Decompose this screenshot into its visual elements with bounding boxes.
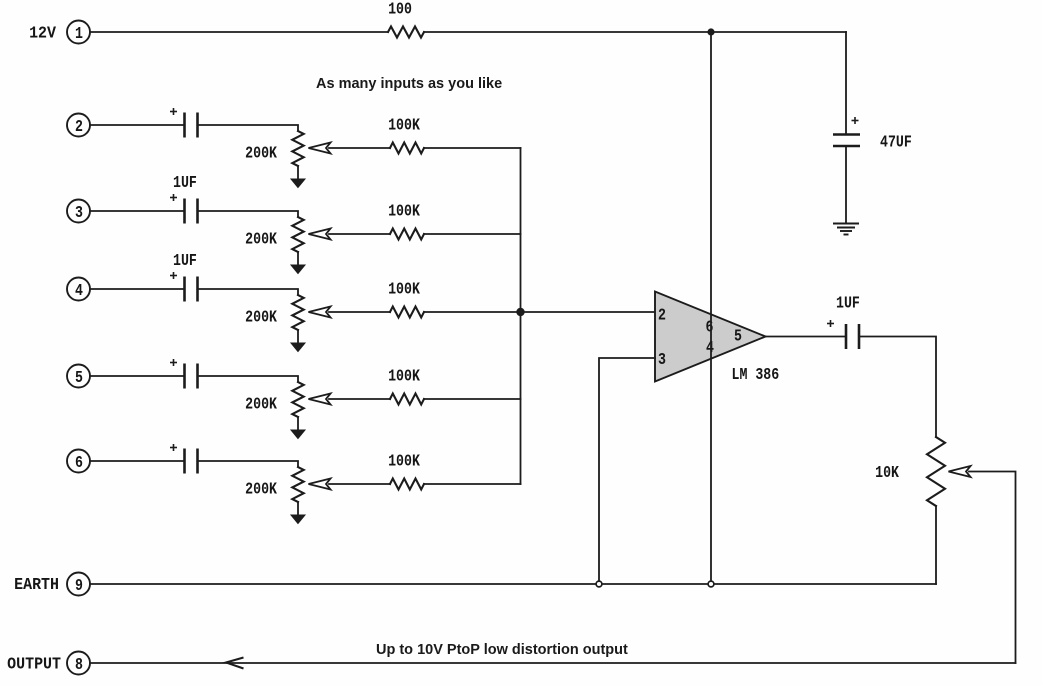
- svg-text:10K: 10K: [875, 463, 900, 483]
- potentiometer 200K input 2: [292, 131, 303, 166]
- wire 100K to summing bus input 2: [424, 147, 521, 149]
- wire input 6 to coupling cap: [90, 460, 183, 462]
- svg-text:6: 6: [706, 317, 714, 337]
- capacitor 1UF input 2 (electrolytic): [170, 108, 198, 138]
- wire input 4 to coupling cap: [90, 288, 183, 290]
- svg-text:1: 1: [75, 24, 83, 44]
- wire cap to pot input 4: [198, 289, 299, 294]
- arrow on output line: [226, 658, 244, 669]
- wire op-amp output to 1UF cap: [766, 336, 845, 338]
- resistor 100: [388, 27, 424, 38]
- node 5 terminal (input 5): [67, 365, 90, 388]
- arrow to ground (pot bottom) input 4: [291, 343, 305, 352]
- wire input 2 to coupling cap: [90, 124, 183, 126]
- wire cap to 10K pot: [859, 337, 936, 438]
- svg-text:Up to 10V PtoP low distortion: Up to 10V PtoP low distortion output: [376, 642, 628, 658]
- arrow to ground (pot bottom) input 5: [291, 430, 305, 439]
- wire pot bottom stem input 2: [297, 166, 299, 180]
- svg-text:100K: 100K: [388, 201, 421, 221]
- wire output line: [90, 662, 1016, 664]
- node 4 terminal (input 4): [67, 278, 90, 301]
- svg-text:100K: 100K: [388, 115, 421, 135]
- capacitor 1UF input 6 (electrolytic): [170, 444, 198, 474]
- svg-text:9: 9: [75, 576, 83, 596]
- svg-text:6: 6: [75, 453, 83, 473]
- svg-text:47UF: 47UF: [880, 132, 912, 152]
- node 1 terminal (12V input): [67, 21, 90, 44]
- wire wiper to 100K input 2: [329, 147, 390, 149]
- wire cap to pot input 2: [198, 125, 299, 130]
- wire pot bottom stem input 3: [297, 252, 299, 266]
- wire 12V rail right segment: [424, 31, 846, 33]
- wire earth line: [90, 583, 936, 585]
- wire input 5 to coupling cap: [90, 375, 183, 377]
- op-amp U1 LM386: [655, 292, 766, 382]
- svg-text:200K: 200K: [245, 229, 278, 249]
- arrow to ground (pot bottom) input 6: [291, 515, 305, 524]
- wire 100K to summing bus input 6: [424, 483, 521, 485]
- wire 12V rail left segment: [90, 31, 388, 33]
- capacitor 1UF input 3 (electrolytic): [170, 194, 198, 224]
- svg-text:1UF: 1UF: [173, 173, 197, 193]
- node 9 terminal (EARTH): [67, 573, 90, 596]
- wire 10K bottom to earth: [935, 506, 937, 584]
- svg-text:As many inputs as you like: As many inputs as you like: [316, 76, 502, 92]
- wire 100K to summing bus input 4: [424, 311, 521, 313]
- wire cap to pot input 3: [198, 211, 299, 216]
- summing bus vertical wire: [520, 148, 522, 484]
- svg-text:5: 5: [75, 368, 83, 388]
- resistor 100K input 3: [390, 229, 424, 240]
- wiper arrow 10K: [949, 466, 971, 477]
- svg-text:2: 2: [75, 117, 83, 137]
- junction dot 12V rail / pin6 line: [707, 28, 714, 35]
- wire wiper to 100K input 3: [329, 233, 390, 235]
- svg-text:8: 8: [75, 655, 83, 675]
- arrow to ground (pot bottom) input 3: [291, 265, 305, 274]
- wiper arrow input 4: [309, 307, 331, 318]
- capacitor 47UF (electrolytic, horizontal plates): [833, 117, 860, 146]
- svg-text:2: 2: [658, 305, 666, 325]
- svg-text:LM 386: LM 386: [732, 365, 780, 385]
- wire cap to pot input 5: [198, 376, 299, 381]
- svg-text:3: 3: [75, 203, 83, 223]
- junction ring pin4/earth: [708, 581, 714, 587]
- wire wiper to 100K input 4: [329, 311, 390, 313]
- svg-text:100K: 100K: [388, 366, 421, 386]
- wire 10K wiper to output drop: [969, 472, 1016, 664]
- svg-text:3: 3: [658, 350, 666, 370]
- svg-text:OUTPUT: OUTPUT: [7, 655, 61, 674]
- junction ring pin3/earth: [596, 581, 602, 587]
- resistor 100K input 4: [390, 307, 424, 318]
- wire pot bottom stem input 6: [297, 502, 299, 516]
- wire pin 3 to earth: [599, 358, 655, 584]
- svg-text:EARTH: EARTH: [14, 575, 59, 594]
- svg-text:1UF: 1UF: [836, 293, 860, 313]
- wiper arrow input 5: [309, 394, 331, 405]
- resistor 100K input 2: [390, 143, 424, 154]
- svg-text:100: 100: [388, 0, 412, 19]
- node 3 terminal (input 3): [67, 200, 90, 223]
- wire bus to pin 2: [521, 311, 656, 313]
- wiper arrow input 6: [309, 479, 331, 490]
- potentiometer 200K input 3: [292, 217, 303, 252]
- capacitor 1UF output (electrolytic): [827, 320, 859, 349]
- wire pot bottom stem input 5: [297, 417, 299, 431]
- wire 100K to summing bus input 3: [424, 233, 521, 235]
- svg-text:200K: 200K: [245, 394, 278, 414]
- potentiometer 200K input 5: [292, 382, 303, 417]
- junction dot bus to pin 2: [516, 308, 524, 316]
- svg-text:200K: 200K: [245, 479, 278, 499]
- potentiometer 10K: [927, 437, 945, 506]
- wire cap to pot input 6: [198, 461, 299, 466]
- arrow to ground (pot bottom) input 2: [291, 179, 305, 188]
- svg-text:100K: 100K: [388, 451, 421, 471]
- svg-text:12V: 12V: [29, 24, 56, 43]
- wire from rail down to 47UF cap: [845, 32, 847, 134]
- resistor 100K input 6: [390, 479, 424, 490]
- svg-text:1UF: 1UF: [173, 251, 197, 271]
- resistor 100K input 5: [390, 394, 424, 405]
- potentiometer 200K input 4: [292, 295, 303, 330]
- svg-text:5: 5: [734, 326, 742, 346]
- capacitor 1UF input 4 (electrolytic): [170, 272, 198, 302]
- node 8 terminal (OUTPUT): [67, 652, 90, 675]
- wiper arrow input 2: [309, 143, 331, 154]
- ground symbol: [833, 224, 859, 235]
- svg-text:4: 4: [75, 281, 83, 301]
- svg-text:200K: 200K: [245, 307, 278, 327]
- wire pin6/pin4 vertical (12V to earth): [710, 32, 712, 584]
- svg-text:200K: 200K: [245, 143, 278, 163]
- potentiometer 200K input 6: [292, 467, 303, 502]
- wiper arrow input 3: [309, 229, 331, 240]
- capacitor 1UF input 5 (electrolytic): [170, 359, 198, 389]
- svg-text:4: 4: [706, 338, 714, 358]
- wire cap to ground: [845, 146, 847, 223]
- wire wiper to 100K input 5: [329, 398, 390, 400]
- node 2 terminal (input 2): [67, 114, 90, 137]
- wire 100K to summing bus input 5: [424, 398, 521, 400]
- wire wiper to 100K input 6: [329, 483, 390, 485]
- node 6 terminal (input 6): [67, 450, 90, 473]
- svg-text:100K: 100K: [388, 279, 421, 299]
- wire input 3 to coupling cap: [90, 210, 183, 212]
- wire pot bottom stem input 4: [297, 330, 299, 344]
